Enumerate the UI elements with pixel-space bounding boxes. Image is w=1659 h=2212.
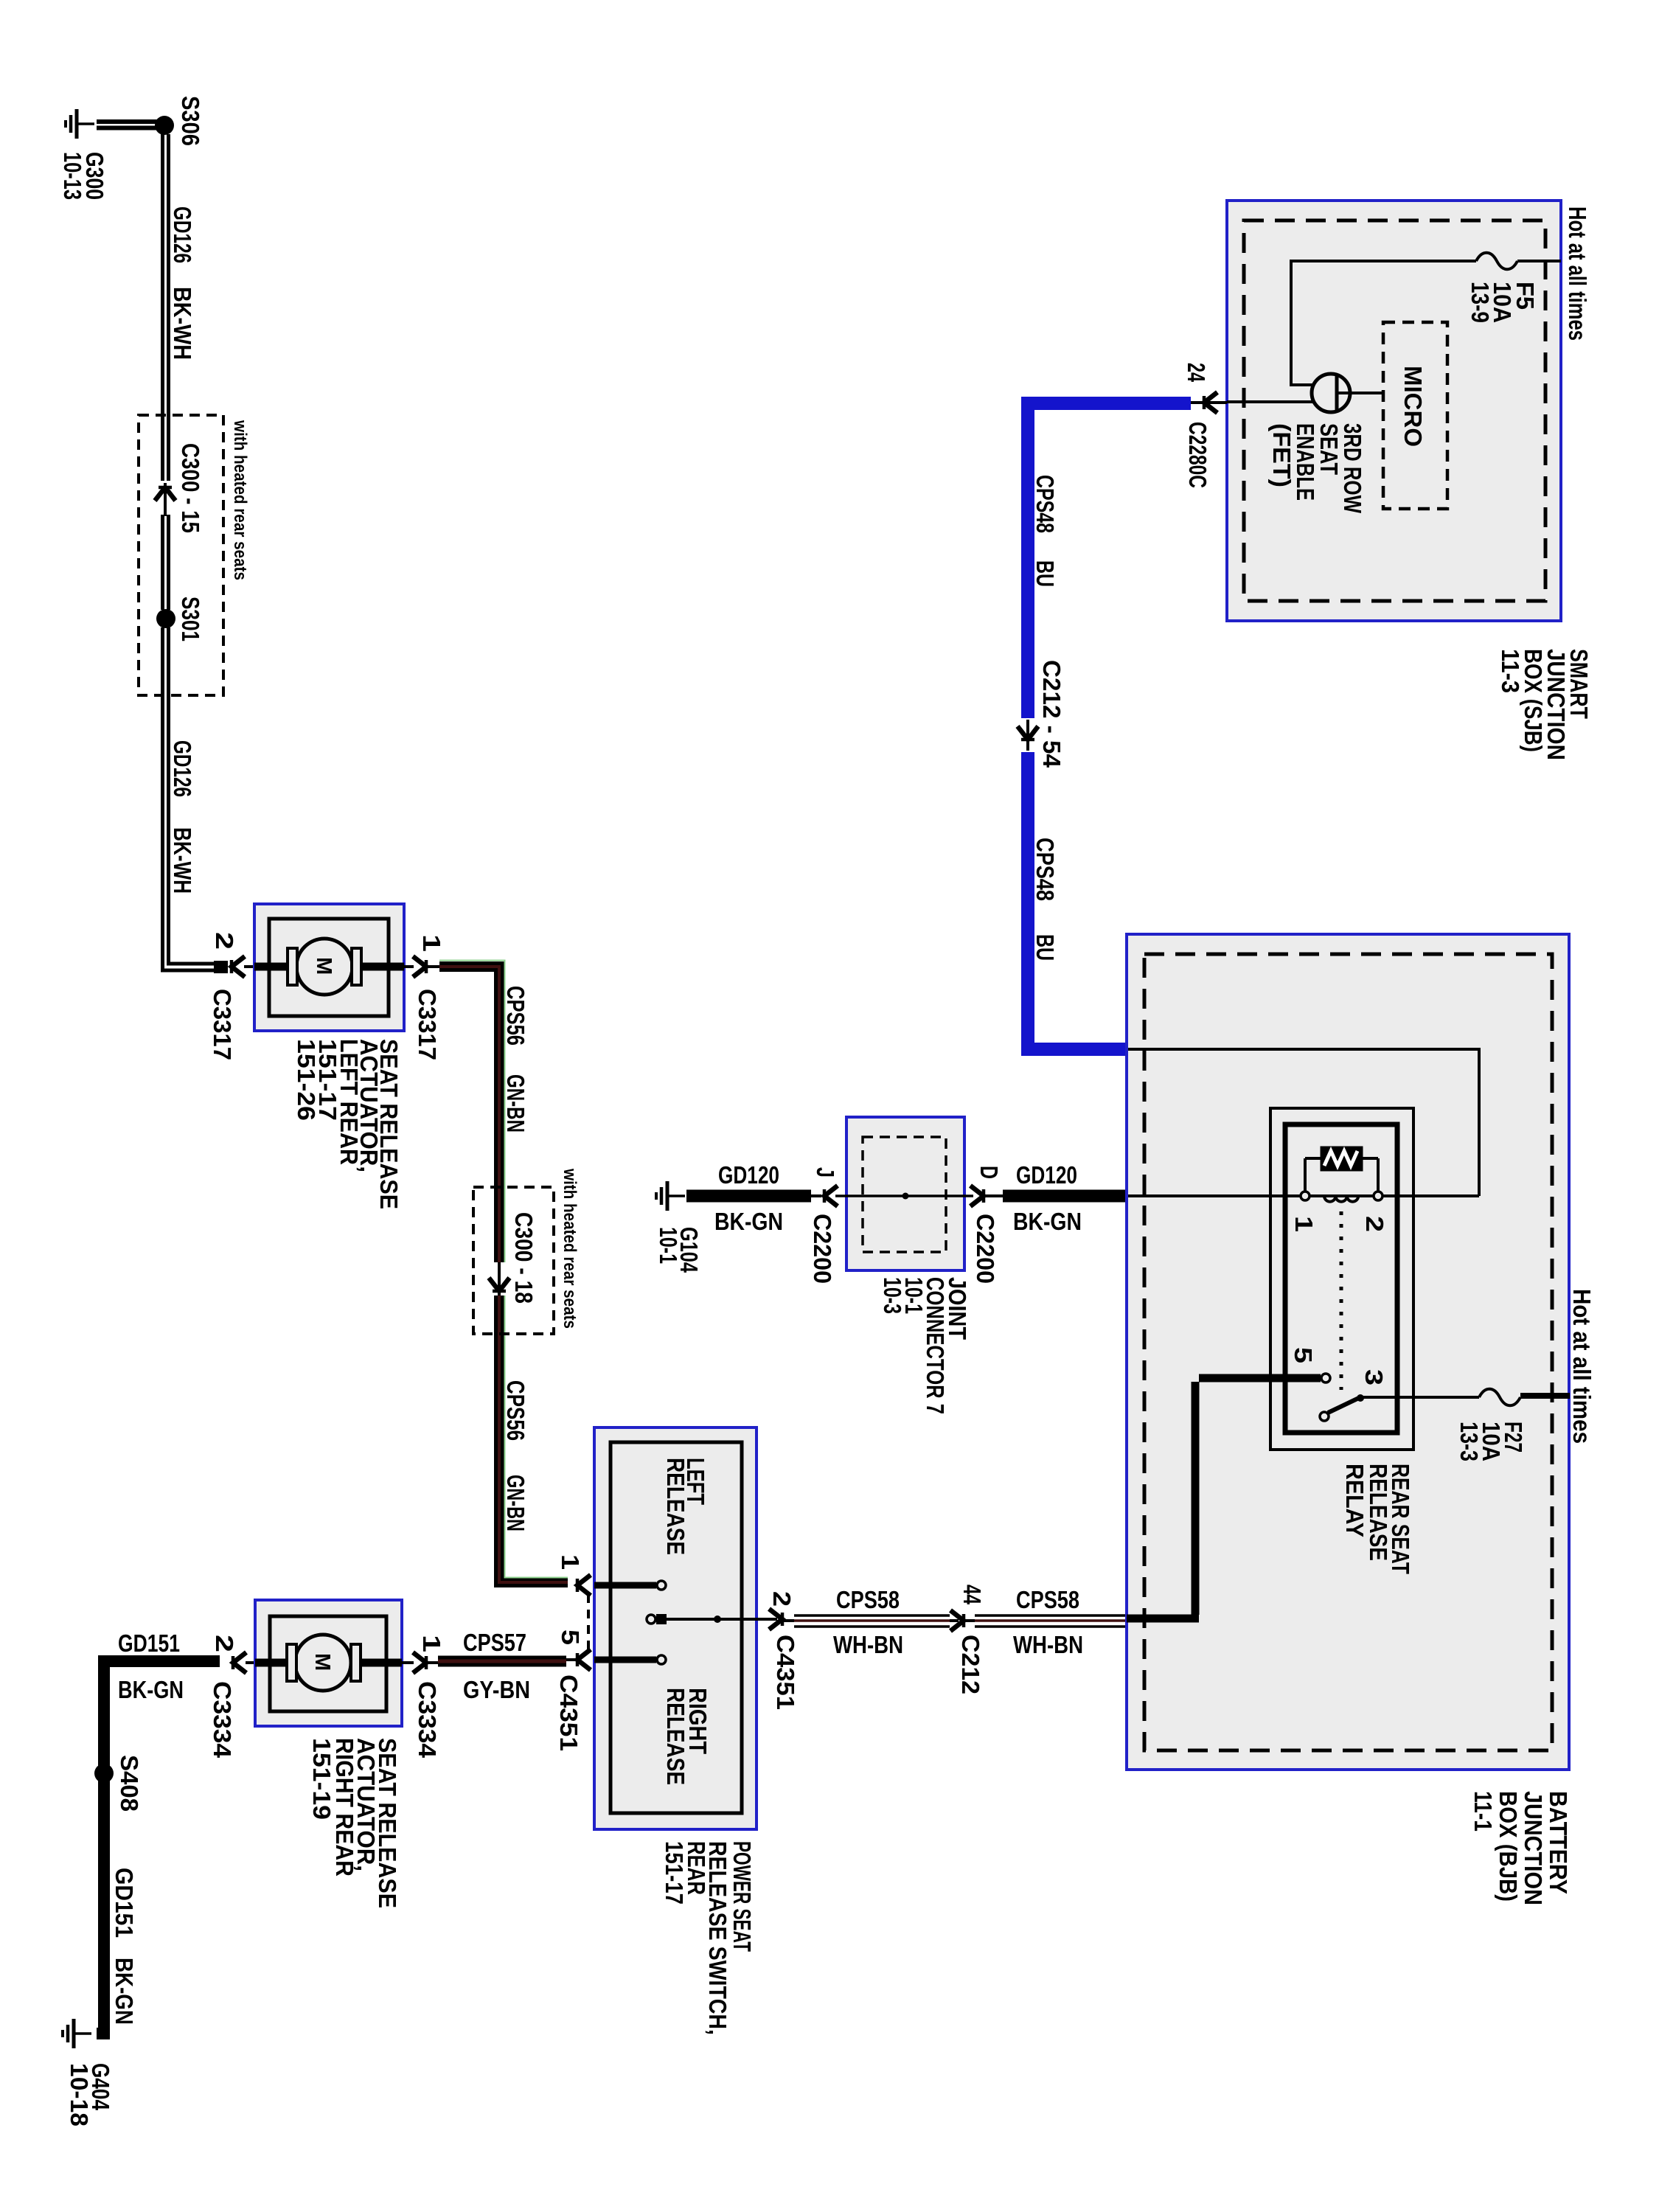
svg-text:GD151: GD151 — [118, 1630, 180, 1657]
label BK-GN upper — [118, 1676, 184, 1703]
label C2200 right — [972, 1214, 999, 1284]
pin 1 arrow C4351 — [577, 1575, 591, 1596]
svg-text:GD126: GD126 — [169, 740, 196, 797]
label C3317 left — [209, 989, 236, 1060]
wire CPS58 WH-BN left — [784, 1615, 959, 1627]
pin 2 arrow C4351 — [769, 1609, 782, 1630]
joint connector 7 box — [846, 1117, 964, 1270]
label C3334 right — [414, 1681, 441, 1759]
svg-text:11-3: 11-3 — [1497, 649, 1524, 693]
svg-text:C212: C212 — [957, 1635, 984, 1694]
label F5 10A 13-9 — [1467, 282, 1539, 323]
pin 2 arrow C3317 — [232, 956, 255, 977]
wire fuse F5 feed — [1517, 260, 1561, 262]
relay coil — [1324, 1196, 1358, 1202]
rear seat release relay outline — [1270, 1108, 1413, 1450]
pin 44 arrow C212 — [950, 1610, 964, 1631]
svg-text:BATTERY: BATTERY — [1545, 1791, 1572, 1894]
svg-text:GN-BN: GN-BN — [502, 1074, 529, 1133]
wire relay pin 3 to fuse F27 — [1363, 1396, 1479, 1399]
label seat release actuator left rear — [293, 1039, 403, 1209]
label relay pin 3 — [1360, 1369, 1388, 1385]
label G104 10-1 — [655, 1227, 703, 1273]
label CPS56 GN-BN lower — [502, 1380, 529, 1531]
svg-text:151-26: 151-26 — [293, 1039, 320, 1121]
svg-text:(FET): (FET) — [1268, 423, 1295, 487]
wire coil feed from CPS48 — [1128, 1049, 1479, 1196]
svg-text:D: D — [975, 1166, 1003, 1179]
svg-text:BK-GN: BK-GN — [1013, 1208, 1082, 1235]
label WH-BN left — [833, 1631, 903, 1658]
wire through left motor — [254, 963, 404, 971]
label C4351 left — [555, 1674, 582, 1751]
svg-text:1: 1 — [418, 1635, 445, 1652]
svg-text:with heated rear seats: with heated rear seats — [560, 1168, 580, 1329]
label switch pin 1 — [557, 1554, 584, 1570]
label C212 — [957, 1635, 984, 1694]
label with heated rear seats (C300-18) — [560, 1168, 580, 1329]
wire GD126 between C300-15 and S301 — [163, 515, 169, 610]
svg-text:151-19: 151-19 — [308, 1738, 335, 1820]
svg-text:C3317: C3317 — [414, 989, 441, 1060]
svg-text:M: M — [312, 957, 335, 975]
label C300 - 15 — [177, 443, 204, 533]
svg-text:RELAY: RELAY — [1341, 1464, 1368, 1537]
svg-text:C212 - 54: C212 - 54 — [1038, 660, 1065, 768]
fuse F27 — [1479, 1389, 1520, 1406]
svg-text:CPS58: CPS58 — [836, 1586, 900, 1613]
label switch pin 2 — [768, 1591, 796, 1607]
label S408 — [116, 1755, 143, 1812]
svg-text:2: 2 — [1361, 1216, 1388, 1232]
label CPS58 right — [1016, 1586, 1079, 1613]
micro dashed box — [1383, 322, 1447, 509]
pin J arrow C2200 — [824, 1186, 838, 1206]
svg-text:WH-BN: WH-BN — [833, 1631, 903, 1658]
SJB dashed border — [1244, 220, 1545, 601]
svg-text:BK-GN: BK-GN — [111, 1958, 138, 2025]
svg-text:BOX (BJB): BOX (BJB) — [1495, 1791, 1522, 1902]
label F27 10A 13-3 — [1455, 1422, 1527, 1461]
label C212 - 54 — [1038, 660, 1065, 768]
label GD151 BK-GN along wire — [111, 1868, 138, 2025]
pin 24 arrow C2280C — [1204, 392, 1217, 413]
wire CPS58 WH-BN right — [965, 1615, 1125, 1627]
svg-text:S306: S306 — [177, 96, 204, 146]
label G404 10-18 — [66, 2063, 114, 2126]
connector arrow C212-54 — [1018, 720, 1038, 751]
label relay pin 1 — [1290, 1216, 1318, 1232]
svg-text:C300 - 15: C300 - 15 — [177, 443, 204, 533]
label pin 24 — [1183, 363, 1210, 382]
svg-text:2: 2 — [768, 1591, 796, 1607]
svg-text:C4351: C4351 — [555, 1674, 582, 1751]
smart junction box SJB — [1227, 201, 1561, 621]
label LEFT RELEASE — [662, 1458, 709, 1555]
label relay pin 5 — [1290, 1347, 1317, 1363]
svg-text:GY-BN: GY-BN — [463, 1676, 530, 1703]
svg-text:S301: S301 — [177, 597, 204, 641]
label pin J — [812, 1167, 839, 1178]
label rear seat release relay — [1341, 1464, 1414, 1574]
wire GD120 BK-GN right — [985, 1194, 1125, 1197]
svg-text:1: 1 — [557, 1554, 584, 1570]
label CPS56 GN-BN upper — [502, 986, 529, 1133]
label smart junction box SJB 11-3 — [1497, 649, 1593, 760]
svg-text:10-13: 10-13 — [59, 152, 86, 200]
label power seat release switch rear — [661, 1841, 756, 2035]
label CPS57 — [463, 1629, 526, 1656]
label joint connector 7 10-1 10-3 — [879, 1277, 971, 1414]
BJB dashed border — [1144, 954, 1552, 1750]
svg-text:BU: BU — [1032, 934, 1059, 961]
svg-text:J: J — [812, 1167, 839, 1178]
svg-text:1: 1 — [418, 934, 445, 952]
wire GD126 BK-WH lower segment — [163, 627, 229, 973]
wire GD120 BK-GN left — [686, 1190, 821, 1203]
label Hot at all times (BJB) — [1568, 1289, 1596, 1444]
wire CPS48 BU upper — [1028, 403, 1191, 718]
battery junction box BJB — [1127, 934, 1569, 1770]
svg-text:11-1: 11-1 — [1470, 1791, 1497, 1832]
svg-text:BK-GN: BK-GN — [714, 1208, 783, 1235]
svg-text:BU: BU — [1032, 560, 1059, 587]
wire CPS56 GN-BN lower — [499, 1262, 568, 1582]
svg-text:BK-WH: BK-WH — [169, 287, 196, 360]
svg-text:RELEASE: RELEASE — [662, 1688, 689, 1785]
label WH-BN right — [1013, 1631, 1083, 1658]
pin D arrow C2200 — [970, 1186, 984, 1206]
inline connector box C300-18 — [473, 1187, 554, 1334]
label pin D — [975, 1166, 1003, 1179]
svg-text:WH-BN: WH-BN — [1013, 1631, 1083, 1658]
label S306 — [177, 96, 204, 146]
svg-text:10-1: 10-1 — [655, 1227, 682, 1264]
svg-text:GD120: GD120 — [1016, 1161, 1077, 1189]
wire relay pin 5 to CPS58 — [1127, 1378, 1321, 1618]
label G300 10-13 — [59, 152, 108, 200]
svg-text:24: 24 — [1183, 363, 1210, 382]
fuse F5 — [1476, 253, 1517, 270]
svg-text:CPS48: CPS48 — [1032, 838, 1059, 901]
wire F5 to FET — [1291, 260, 1476, 385]
motor M seat release actuator right rear box — [255, 1600, 402, 1726]
svg-text:3: 3 — [1360, 1369, 1388, 1385]
svg-text:5: 5 — [557, 1630, 584, 1645]
svg-text:151-17: 151-17 — [661, 1841, 688, 1905]
svg-text:BK-WH: BK-WH — [169, 827, 196, 894]
svg-text:C3317: C3317 — [209, 989, 236, 1060]
svg-text:CPS48: CPS48 — [1032, 475, 1059, 533]
label GD120 left — [718, 1161, 779, 1189]
label BK-GN right — [1013, 1208, 1082, 1235]
relay pin 2 node — [1374, 1192, 1382, 1200]
power seat release switch box — [594, 1427, 757, 1829]
svg-text:C2280C: C2280C — [1184, 422, 1211, 488]
label seat release actuator right rear — [308, 1738, 401, 1908]
wire FET output to pin 24 — [1191, 402, 1313, 403]
label battery junction box BJB 11-1 — [1470, 1791, 1572, 1905]
wire relay coil line — [1128, 1194, 1479, 1197]
svg-text:10-18: 10-18 — [66, 2063, 93, 2126]
label 3rd row seat enable (FET) — [1268, 423, 1366, 514]
svg-text:10-3: 10-3 — [879, 1277, 906, 1314]
svg-text:CPS58: CPS58 — [1016, 1586, 1079, 1613]
label GY-BN — [463, 1676, 530, 1703]
pin 1 arrow C3317 — [404, 956, 439, 977]
svg-text:C3334: C3334 — [209, 1681, 236, 1759]
label GD120 right — [1016, 1161, 1077, 1189]
svg-text:RELEASE: RELEASE — [662, 1458, 689, 1555]
svg-text:Hot at all times: Hot at all times — [1568, 1289, 1596, 1444]
svg-text:GD126: GD126 — [169, 206, 196, 263]
label Hot at all times (SJB) — [1564, 206, 1591, 341]
label CPS48 BU lower — [1032, 838, 1059, 961]
label switch pin 5 — [557, 1630, 584, 1645]
label GD126 BK-WH upper — [169, 206, 196, 360]
label RIGHT RELEASE — [662, 1688, 712, 1785]
pin 1 arrow C3334 — [402, 1652, 426, 1673]
label pin 2 (left motor) — [211, 932, 238, 950]
motor M seat release actuator left rear box — [254, 904, 404, 1031]
label CPS48 BU upper — [1032, 475, 1059, 587]
connector arrow C300-15 — [155, 483, 175, 516]
svg-text:M: M — [310, 1653, 334, 1671]
label CPS58 left — [836, 1586, 900, 1613]
pin 2 arrow C3334 — [233, 1652, 256, 1673]
switch link dashed — [587, 1594, 590, 1652]
relay pin 1 node — [1301, 1192, 1310, 1200]
motor M symbol right rear — [287, 1635, 361, 1691]
svg-text:JUNCTION: JUNCTION — [1520, 1791, 1547, 1905]
label GD151 upper — [118, 1630, 180, 1657]
wire through right motor — [255, 1659, 402, 1667]
svg-text:GN-BN: GN-BN — [502, 1475, 529, 1531]
wire CPS56 GN-BN upper — [439, 961, 505, 1263]
wire CPS48 BU lower — [1028, 752, 1125, 1049]
svg-text:C3334: C3334 — [414, 1681, 441, 1759]
ground G404 — [63, 2019, 91, 2048]
ground G104 — [656, 1181, 685, 1211]
wire CPS57 GY-BN — [428, 1660, 577, 1663]
wire GD126 BK-WH upper segment — [163, 134, 169, 481]
splice S306 — [155, 116, 174, 135]
splice S408 — [94, 1764, 114, 1783]
svg-text:13-9: 13-9 — [1467, 282, 1494, 323]
label MICRO — [1399, 366, 1427, 447]
wire through joint connector 7 — [835, 1193, 973, 1200]
label with heated rear seats (C300-15) — [230, 420, 250, 580]
svg-text:44: 44 — [959, 1585, 986, 1604]
motor M symbol left rear — [288, 939, 361, 995]
svg-text:GD151: GD151 — [111, 1868, 138, 1938]
svg-text:with heated rear seats: with heated rear seats — [230, 420, 250, 580]
svg-text:C2200: C2200 — [809, 1214, 836, 1284]
relay pin 5 node — [1321, 1374, 1330, 1382]
FET 3rd row seat enable — [1312, 374, 1350, 412]
switch pin 5 terminal — [594, 1655, 666, 1664]
svg-text:C4351: C4351 — [772, 1635, 799, 1710]
wire F27 to hot feed — [1520, 1393, 1570, 1399]
svg-text:CPS56: CPS56 — [502, 986, 529, 1046]
label C2280C — [1184, 422, 1211, 488]
svg-text:C300 - 18: C300 - 18 — [510, 1212, 538, 1304]
svg-text:MICRO: MICRO — [1399, 366, 1427, 447]
connector arrow C300-18 — [489, 1278, 509, 1291]
label C2200 left — [809, 1214, 836, 1284]
wire GD126 stub to S306 — [97, 122, 157, 128]
svg-text:S408: S408 — [116, 1755, 143, 1812]
wire GD151 BK-GN — [97, 1661, 220, 2034]
svg-text:CPS56: CPS56 — [502, 1380, 529, 1441]
svg-text:Hot at all times: Hot at all times — [1564, 206, 1591, 341]
switch pin 1 terminal — [594, 1581, 666, 1590]
label S301 — [177, 597, 204, 641]
label pin 2 (right motor) — [211, 1635, 238, 1652]
splice S301 — [156, 609, 175, 628]
relay suppression resistor — [1305, 1148, 1378, 1191]
label pin 44 — [959, 1585, 986, 1604]
inline connector box C300-15 — [139, 415, 223, 695]
label C300 - 18 — [510, 1212, 538, 1304]
svg-text:2: 2 — [211, 932, 238, 950]
svg-text:POWER SEAT: POWER SEAT — [728, 1841, 756, 1952]
relay actuation dotted line — [1340, 1211, 1343, 1390]
relay pin 3 node — [1320, 1412, 1329, 1421]
svg-text:5: 5 — [1290, 1347, 1317, 1363]
label C3334 left — [209, 1681, 236, 1759]
label pin 1 (right motor) — [418, 1635, 445, 1652]
pin 5 arrow C4351 — [577, 1649, 591, 1670]
svg-text:C2200: C2200 — [972, 1214, 999, 1284]
label pin 1 (left motor) — [418, 934, 445, 952]
label C3317 right — [414, 989, 441, 1060]
svg-text:GD120: GD120 — [718, 1161, 779, 1189]
ground G300 — [66, 109, 94, 139]
svg-text:BK-GN: BK-GN — [118, 1676, 184, 1703]
label relay pin 2 — [1361, 1216, 1388, 1232]
svg-text:2: 2 — [211, 1635, 238, 1652]
relay switch blade — [1328, 1394, 1364, 1413]
wire FET gate to micro — [1337, 392, 1383, 394]
switch common terminal — [647, 1614, 777, 1624]
label GD126 BK-WH lower — [169, 740, 196, 894]
label BK-GN left — [714, 1208, 783, 1235]
svg-text:13-3: 13-3 — [1455, 1422, 1483, 1461]
label C4351 right — [772, 1635, 799, 1710]
svg-text:1: 1 — [1290, 1216, 1318, 1232]
svg-text:CPS57: CPS57 — [463, 1629, 526, 1656]
